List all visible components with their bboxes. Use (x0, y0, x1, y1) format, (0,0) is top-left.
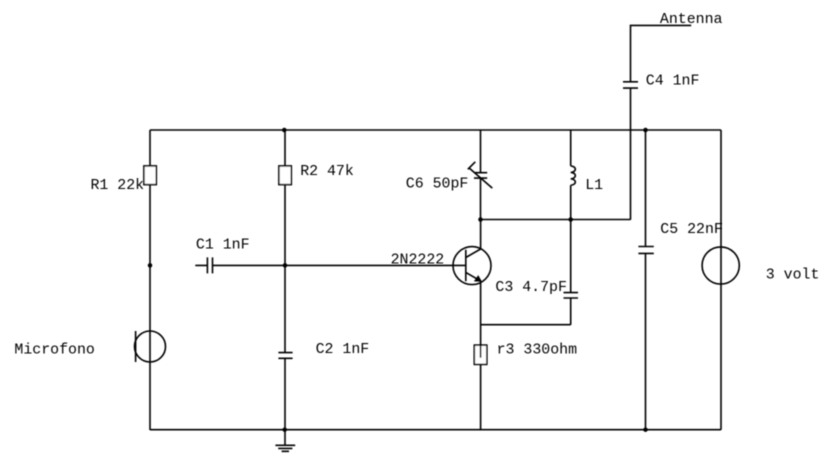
svg-text:Microfono: Microfono (14, 343, 94, 359)
svg-text:C4 1nF: C4 1nF (646, 73, 700, 89)
node C5 top rail (643, 128, 648, 133)
wire top supply rail (150, 129, 721, 131)
resistor R1 (144, 166, 156, 185)
wire bottom ground rail (150, 429, 721, 431)
capacitor C6 (variable) (468, 130, 493, 220)
wire base lead C1 to transistor (213, 264, 466, 266)
svg-text:2N2222: 2N2222 (391, 252, 445, 268)
microphone MIC (135, 331, 166, 362)
svg-text:C6 50pF: C6 50pF (406, 176, 469, 192)
wire C3 bottom to emitter (481, 324, 571, 326)
svg-text:C5 22nF: C5 22nF (660, 222, 723, 238)
wire right branch (battery column) (720, 130, 722, 430)
svg-text:Antenna: Antenna (660, 12, 723, 28)
transistor Q1 2N2222 (453, 220, 491, 285)
svg-text:C1 1nF: C1 1nF (196, 238, 250, 254)
svg-text:C2 1nF: C2 1nF (316, 342, 370, 358)
node C6 junction (478, 217, 483, 222)
node bottom rail ground junction (282, 427, 287, 432)
capacitor C2 (278, 353, 292, 359)
svg-text:r3 330ohm: r3 330ohm (497, 343, 577, 359)
capacitor C3 (564, 293, 579, 325)
battery BT1 3 volt (702, 247, 739, 284)
wire tank row C6-L1-antenna (481, 219, 631, 221)
resistor r3 (474, 345, 487, 364)
svg-text:C3 4.7pF: C3 4.7pF (495, 280, 567, 296)
node C1 / R2 junction (283, 263, 288, 268)
svg-text:L1: L1 (585, 178, 603, 194)
wire r3 to bottom rail (480, 364, 482, 429)
resistor R2 (279, 166, 291, 185)
inductor L1 (571, 130, 576, 293)
wire left branch (R1 / microphone column) (149, 130, 151, 430)
ground (275, 430, 295, 451)
node L1 junction (568, 217, 573, 222)
wire emitter to r3 (480, 281, 482, 345)
node top rail / R2 (282, 128, 287, 133)
node on left wire at C1 row (148, 263, 153, 268)
capacitor C5 column (638, 130, 653, 430)
node C5 bottom rail (643, 427, 648, 432)
wire R2/C2 column (284, 130, 286, 430)
svg-text:R2 47k: R2 47k (300, 164, 354, 180)
antenna wire (631, 25, 692, 219)
svg-text:3 volt: 3 volt (766, 267, 820, 283)
capacitor C4 (623, 82, 638, 88)
capacitor C1 (195, 257, 212, 273)
svg-text:R1 22k: R1 22k (91, 178, 145, 194)
